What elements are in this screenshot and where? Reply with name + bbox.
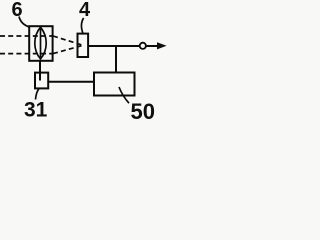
svg-text:6: 6: [12, 0, 23, 21]
svg-text:4: 4: [79, 0, 91, 21]
svg-text:50: 50: [131, 99, 155, 120]
svg-text:31: 31: [24, 99, 48, 121]
